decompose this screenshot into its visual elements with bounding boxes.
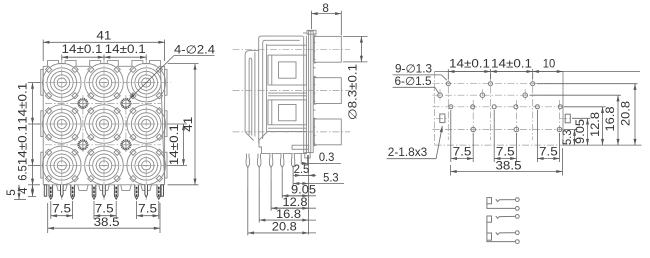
svg-text:5.3: 5.3 <box>562 130 574 146</box>
jack symbol 3 terminals <box>515 231 519 235</box>
RCA jack <box>72 93 78 99</box>
dim 10 top pcb <box>533 71 563 73</box>
svg-text:14±0.1: 14±0.1 <box>105 44 146 56</box>
dim 41 right side <box>168 63 199 65</box>
dim 4 left <box>28 195 36 197</box>
flange plate <box>309 31 314 153</box>
shield fold lines <box>263 40 300 139</box>
pin dim 20.8 <box>247 188 249 235</box>
dim 7.5 bottom x3 <box>50 201 52 219</box>
svg-text:41: 41 <box>96 30 111 42</box>
svg-text:7.5: 7.5 <box>453 146 472 158</box>
center pin <box>103 185 106 197</box>
svg-text:20.8: 20.8 <box>621 101 633 126</box>
side view shield outline <box>259 36 303 143</box>
svg-text:4-∅2.4: 4-∅2.4 <box>174 45 216 57</box>
svg-text:14±0.1: 14±0.1 <box>491 59 532 71</box>
centerline vertical <box>61 57 63 201</box>
pin dim 16.8 <box>258 186 260 223</box>
svg-text:7.5: 7.5 <box>138 203 157 215</box>
jack symbol 1 sleeve bracket <box>487 198 492 204</box>
mounting hole 2.4 <box>122 141 131 150</box>
wire bracket2 to bracket3 <box>486 222 488 233</box>
body bottom tab <box>121 185 131 191</box>
svg-text:7.5: 7.5 <box>52 203 71 215</box>
ground pin <box>157 185 161 200</box>
svg-text:14±0.1: 14±0.1 <box>62 44 103 56</box>
dim 14 pair top pcb <box>447 69 449 79</box>
svg-text:2.5: 2.5 <box>294 164 310 176</box>
pcb dim 7.5 x3 <box>450 110 452 162</box>
body right flap <box>165 69 167 95</box>
RCA jack <box>72 134 78 140</box>
jack symbol 3 tip contact <box>496 232 516 234</box>
dim 14 left chain <box>28 82 40 84</box>
dim 8.3 diameter <box>343 35 368 37</box>
ground pin <box>49 185 53 200</box>
side view centerlines <box>233 48 351 50</box>
svg-text:38.5: 38.5 <box>94 217 120 229</box>
svg-text:7.5: 7.5 <box>539 146 558 158</box>
mount hole centerline v <box>125 95 127 153</box>
body left flap <box>41 69 43 95</box>
svg-text:0.3: 0.3 <box>319 152 335 164</box>
dim 6.5 left <box>32 165 34 184</box>
jack symbol 1 tip contact <box>496 199 516 201</box>
svg-text:14±0.1: 14±0.1 <box>169 124 181 165</box>
svg-text:8: 8 <box>322 3 329 15</box>
body left flap <box>41 152 43 178</box>
svg-text:16.8: 16.8 <box>276 209 301 221</box>
mounting hole 2.4 <box>79 141 88 150</box>
RCA jack <box>156 93 162 99</box>
jack barrels <box>314 36 341 62</box>
svg-text:38.5: 38.5 <box>496 160 522 172</box>
body right flap <box>165 111 167 137</box>
svg-text:12.8: 12.8 <box>590 112 602 137</box>
svg-text:6-∅1.5: 6-∅1.5 <box>395 76 432 88</box>
dim 8 top <box>310 11 312 29</box>
flange bottom tab <box>305 153 310 158</box>
jack symbol 1 terminals <box>515 198 519 202</box>
dim 38.5 bottom <box>47 203 49 233</box>
RCA jack <box>72 175 78 181</box>
body top plateau <box>90 61 119 67</box>
dim 5 left <box>14 199 26 201</box>
ground pin <box>92 185 96 200</box>
svg-text:9.05: 9.05 <box>575 119 587 144</box>
svg-text:2-1.8x3: 2-1.8x3 <box>388 147 428 159</box>
RCA jack <box>114 134 120 140</box>
body top plateau <box>132 61 161 67</box>
contact pocket row1 <box>267 44 307 46</box>
svg-text:9.05: 9.05 <box>291 185 316 197</box>
jack symbol 2 terminal <box>515 215 519 219</box>
jack symbol 3 sleeve bracket <box>487 233 492 240</box>
holes row E 1.5 <box>471 127 476 132</box>
dim 41 top <box>42 40 44 62</box>
body bottom tab <box>99 185 109 191</box>
jack symbol 2 sleeve bracket <box>487 216 492 222</box>
body bottom tab <box>141 185 151 191</box>
pin dimension reference line <box>308 155 310 235</box>
svg-text:∅8.3±0.1: ∅8.3±0.1 <box>348 64 360 120</box>
pcb dim 5.3 <box>574 130 576 146</box>
shield outer wrap <box>245 51 259 141</box>
ground pin <box>135 185 139 200</box>
body right flap <box>165 152 167 178</box>
contact pocket row2 <box>268 100 306 125</box>
ground pin <box>71 185 75 200</box>
centerline horizontal <box>36 164 171 166</box>
mounting hole 2.4 <box>79 99 88 108</box>
svg-text:7.5: 7.5 <box>95 203 114 215</box>
center pin <box>145 185 148 197</box>
RCA jack <box>156 175 162 181</box>
housing face lines <box>303 36 305 154</box>
RCA jack <box>114 93 120 99</box>
centerline vertical <box>145 57 147 201</box>
RCA jack <box>156 134 162 140</box>
holes row A 1.3 <box>446 82 450 86</box>
svg-text:6.5: 6.5 <box>18 165 30 181</box>
side bracket pin right <box>161 185 163 196</box>
dim 14 right side <box>168 123 187 125</box>
RCA jack <box>114 175 120 181</box>
center pin <box>61 185 64 197</box>
flange serrations <box>313 33 315 35</box>
side bracket pin left <box>44 185 46 196</box>
pin dim 0.3 <box>307 155 309 166</box>
svg-text:5.3: 5.3 <box>323 172 339 184</box>
dim 14 top pair <box>61 55 63 61</box>
flange top tab <box>307 30 316 34</box>
mounting hole 2.4 <box>122 99 131 108</box>
centerline horizontal <box>36 123 171 125</box>
body bottom tab <box>57 185 67 191</box>
svg-text:10: 10 <box>543 59 556 71</box>
bottom step tab <box>292 145 308 149</box>
svg-text:5: 5 <box>6 189 18 196</box>
centerline horizontal <box>36 82 171 84</box>
centerline vertical <box>103 57 105 201</box>
pcb dim 9.05 <box>587 118 589 145</box>
body bottom tab <box>78 185 88 191</box>
pin dim 2.5 <box>300 160 302 165</box>
svg-text:7.5: 7.5 <box>496 146 515 158</box>
side view pins <box>246 154 249 168</box>
body left flap <box>41 111 43 137</box>
svg-text:16.8: 16.8 <box>605 107 617 132</box>
holes row B 1.5 <box>438 93 443 98</box>
mount hole centerline v <box>82 95 84 153</box>
shield hairpin fold <box>249 58 252 135</box>
pin dim 9.05 <box>281 173 283 198</box>
pcb right dim stack <box>563 71 640 73</box>
holes row C 1.3 <box>449 105 453 109</box>
pcb footprint border <box>435 71 564 73</box>
mount hole centerline h <box>45 144 161 146</box>
jack symbol 2 tip contact <box>496 216 516 218</box>
svg-text:20.8: 20.8 <box>272 222 297 234</box>
jack symbol 3 sleeve wire <box>487 240 516 241</box>
front view body outline <box>43 66 164 185</box>
svg-text:14±0.1: 14±0.1 <box>18 83 30 124</box>
mount hole centerline h <box>45 102 161 104</box>
pcb dim 12.8 <box>602 107 604 145</box>
svg-text:14±0.1: 14±0.1 <box>449 59 490 71</box>
slot 1.8x3 left <box>440 114 445 123</box>
pin dim 5.3 <box>292 166 294 186</box>
svg-text:12.8: 12.8 <box>283 197 308 209</box>
body top plateau <box>48 61 77 67</box>
pcb dim 38.5 <box>450 165 452 176</box>
pcb centerlines <box>447 74 449 140</box>
slot 1.8x3 right <box>565 114 570 123</box>
pcb dim 16.8 <box>617 95 619 145</box>
pin dim 12.8 <box>270 180 272 211</box>
ground pin <box>114 185 118 200</box>
bottom housing block <box>259 132 306 154</box>
svg-text:14±0.1: 14±0.1 <box>18 124 30 165</box>
svg-text:9-∅1.3: 9-∅1.3 <box>395 63 432 75</box>
svg-text:41: 41 <box>183 117 195 132</box>
pcb dim 20.8 <box>634 84 636 145</box>
